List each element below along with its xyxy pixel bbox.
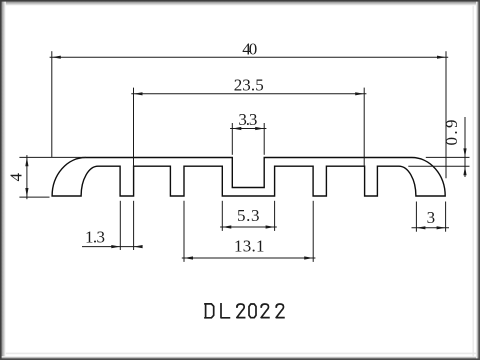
dimension 3 arrows [416, 226, 445, 229]
dimension 3 dim line [412, 202, 450, 232]
viewport frame faint bottom line [0, 352, 480, 354]
dimension 40 arrows [52, 56, 446, 59]
part number label DL2022 [205, 304, 284, 318]
dimension 23.5 dim line [131, 88, 366, 170]
dimension 0.9 arrows [463, 148, 466, 175]
page border fade right [476, 0, 478, 360]
dimension 23.5 right extension line [363, 88, 365, 166]
page border right [478, 0, 480, 360]
dimension 0.9 bottom extension line [408, 165, 469, 167]
dimension 5.3 left extension line [221, 201, 223, 231]
svg-text:5.3: 5.3 [237, 206, 259, 225]
dimension 13.1 left extension line [183, 201, 185, 262]
svg-text:23.5: 23.5 [234, 75, 264, 94]
dimension 13.1 dim line [182, 201, 316, 262]
svg-text:4: 4 [7, 172, 26, 181]
dimension 3 left extension line [415, 202, 417, 232]
digit 2 [261, 304, 269, 318]
dimension 5.3 arrows [222, 225, 274, 228]
page border bottom [0, 358, 480, 360]
profile outline DL2022 extrusion cross-section [52, 158, 445, 197]
digit 0 [249, 304, 256, 318]
page border top [0, 0, 480, 2]
svg-text:1.3: 1.3 [85, 228, 105, 247]
dimension 5.3 right extension line [274, 201, 276, 231]
svg-text:3.3: 3.3 [238, 110, 257, 129]
letter D [205, 304, 214, 318]
dimension 4 dim line [19, 155, 86, 199]
dimension 5.3 dim line [220, 201, 277, 231]
dimension 0.9 dim line [408, 117, 469, 177]
dimension 4 bottom extension line [19, 196, 49, 198]
dimension 4 top extension line [19, 156, 86, 158]
dimension 13.1 right extension line [312, 201, 314, 262]
page border fade left [2, 0, 6, 360]
dimension 40 dim line [50, 51, 449, 178]
dimension 1.3 right extension line [133, 201, 135, 250]
dimension 1.3 left extension line [119, 201, 121, 250]
digit 2 [237, 304, 245, 318]
dimension 23.5 arrows [134, 92, 365, 95]
page border fade top [0, 2, 480, 6]
page border fade bottom [0, 356, 480, 358]
page border left [0, 0, 2, 360]
dimension 1.3 arrows [111, 245, 142, 248]
dimension 3.3 arrows [232, 127, 264, 130]
dimension 1.3 dim line [82, 201, 142, 250]
digit 2 [276, 304, 284, 318]
svg-text:40: 40 [242, 40, 257, 59]
viewport frame faint right line [472, 0, 474, 360]
dimension 13.1 arrows [184, 256, 313, 259]
dimension 40 right extension line [445, 51, 447, 178]
dimension 3.3 right extension line [263, 123, 265, 155]
svg-text:13.1: 13.1 [234, 237, 264, 256]
dimension 0.9 top extension line [426, 156, 470, 158]
dimension 3.3 dim line [230, 123, 266, 155]
dimension 3.3 left extension line [231, 123, 233, 155]
dimension 4 arrows [25, 157, 28, 197]
letter L [221, 304, 229, 318]
dimension 3 right extension line [445, 202, 447, 232]
svg-text:0.9: 0.9 [442, 120, 461, 146]
dimension 23.5 left extension line [133, 88, 135, 170]
svg-text:3: 3 [427, 208, 436, 227]
dimension 40 left extension line [51, 51, 53, 157]
